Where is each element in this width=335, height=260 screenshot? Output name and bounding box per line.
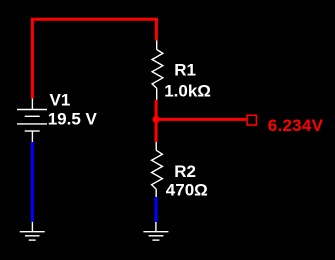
wire top rail right vertical to R1 (155, 19, 158, 40)
svg-text:V1: V1 (50, 91, 71, 110)
wire R2 bottom to ground (blue) (155, 197, 158, 222)
svg-text:1.0kΩ: 1.0kΩ (164, 81, 211, 100)
wire top-left vertical (V1 + to top rail) (31, 19, 34, 98)
svg-text:19.5 V: 19.5 V (48, 110, 98, 129)
node junction dot (153, 116, 160, 123)
svg-text:R2: R2 (174, 162, 196, 181)
svg-text:470Ω: 470Ω (166, 181, 208, 200)
wire top rail horizontal (31, 18, 158, 21)
probe square terminal (247, 115, 256, 125)
wire V1 minus to ground (blue) (31, 142, 34, 222)
wire R1 bottom to node to R2 top (155, 100, 158, 142)
ground symbol right (143, 222, 168, 240)
resistor R2 (152, 142, 163, 197)
ground symbol left (20, 222, 45, 240)
wire node to probe horizontal (156, 118, 246, 121)
svg-text:R1: R1 (174, 61, 196, 80)
svg-text:6.234V: 6.234V (268, 116, 324, 135)
battery V1 symbol (17, 99, 47, 143)
resistor R1 (152, 40, 163, 99)
